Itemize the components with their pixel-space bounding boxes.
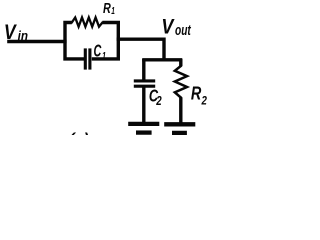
svg-text:R: R [103,1,111,17]
svg-text:V: V [4,20,17,44]
svg-text:1: 1 [102,50,106,62]
svg-text:in: in [18,28,29,43]
svg-text:V: V [161,15,175,39]
svg-text:R: R [191,83,202,104]
svg-text:out: out [175,23,192,39]
svg-text:C: C [94,41,102,61]
svg-text:2: 2 [156,94,162,108]
svg-text:(a): (a) [69,131,89,135]
svg-text:1: 1 [111,6,115,17]
svg-text:2: 2 [201,93,207,107]
